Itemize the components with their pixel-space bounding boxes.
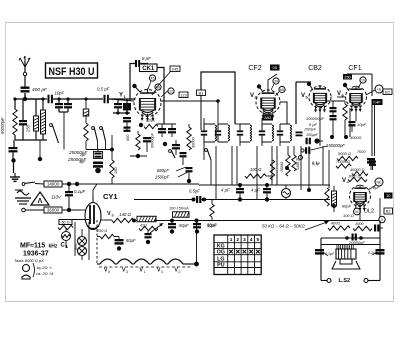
capacitor tone xyxy=(374,225,383,232)
resistor boxed x86 xyxy=(83,97,89,123)
resistor tone a xyxy=(328,222,350,231)
tank CF2 secondary xyxy=(259,118,274,142)
resistor tone b xyxy=(353,222,372,231)
junction V5 grid xyxy=(307,82,313,90)
svg-text:30000: 30000 xyxy=(192,137,196,148)
dial lamp 2 (crossed circle) xyxy=(78,247,87,261)
svg-text:NSF H30 U: NSF H30 U xyxy=(49,66,95,78)
junction y220 x172 xyxy=(170,219,197,223)
resistor left col 3 (box) xyxy=(34,99,39,140)
resistor 600ohm mid xyxy=(126,131,140,150)
label CF2 xyxy=(248,65,261,72)
switch pair mid xyxy=(92,127,106,141)
svg-text:35000: 35000 xyxy=(47,208,60,213)
svg-text:8 pF: 8 pF xyxy=(309,122,318,127)
label 4000 ohm xyxy=(350,136,361,140)
svg-text:100-150mA: 100-150mA xyxy=(169,207,189,211)
output transformer (speaker) xyxy=(336,249,356,259)
wire x272 down xyxy=(271,146,273,185)
capacitor 50uF heater xyxy=(115,237,136,251)
svg-text:8μF: 8μF xyxy=(373,186,380,190)
svg-text:CF2: CF2 xyxy=(248,65,261,72)
wire CF1 right rail xyxy=(347,74,372,156)
resistor 35000 (boxed) xyxy=(26,207,63,213)
svg-text:0,1μF: 0,1μF xyxy=(325,252,335,256)
svg-text:V: V xyxy=(301,93,305,99)
svg-text:V: V xyxy=(337,91,341,97)
label 4uF left xyxy=(79,160,86,164)
svg-text:50μF: 50μF xyxy=(207,223,217,228)
svg-text:14000: 14000 xyxy=(47,182,60,187)
label box B+ left xyxy=(197,90,206,96)
label V5 xyxy=(301,93,309,100)
capacitor cluster a xyxy=(172,140,180,155)
resistor CB2 couple (vertical) xyxy=(343,101,347,137)
speaker cone xyxy=(332,261,360,269)
svg-text:45: 45 xyxy=(151,77,155,81)
label DL2 xyxy=(364,209,374,215)
wire CB2 anode loop xyxy=(296,82,311,124)
wire x216 down xyxy=(215,146,217,199)
label 8uF V4 xyxy=(373,186,380,190)
label note line 1 xyxy=(14,258,44,263)
svg-text:V: V xyxy=(342,178,346,184)
svg-text:45Ω: 45Ω xyxy=(114,167,118,174)
wire lamps join xyxy=(75,255,82,257)
svg-text:400 pF: 400 pF xyxy=(32,87,48,93)
svg-text:CK1: CK1 xyxy=(142,66,155,72)
svg-text:DL2: DL2 xyxy=(364,209,374,215)
svg-text:M: M xyxy=(356,210,359,214)
svg-text:1000: 1000 xyxy=(355,222,364,226)
label box E4F xyxy=(372,99,383,105)
svg-text:1: 1 xyxy=(144,270,146,274)
wire speaker top bars xyxy=(321,238,380,245)
dial lamp 1 (crossed circle) xyxy=(78,229,87,246)
wire V5 right xyxy=(320,97,331,115)
svg-text:50μF: 50μF xyxy=(126,238,136,243)
label 0.5 uF xyxy=(97,87,110,92)
wire x277 down xyxy=(276,146,278,185)
capacitor 10pF out xyxy=(349,121,367,132)
wire V2 right xyxy=(280,102,287,124)
tube V5 xyxy=(309,85,331,113)
resistor 14000 (boxed) xyxy=(35,181,62,187)
label heater V4 xyxy=(157,268,163,275)
capacitor 4uF a xyxy=(236,183,244,202)
wire bar y149.5 xyxy=(86,149,112,151)
wire bus y220 to right xyxy=(154,220,380,222)
mains symbol xyxy=(15,190,31,204)
dashed shield CY1 xyxy=(96,220,98,263)
label 0.1u right spk xyxy=(368,251,378,255)
wire x237 down xyxy=(236,146,238,185)
wire bus y185 right xyxy=(199,184,330,186)
resistor boxed x334 xyxy=(332,186,337,212)
capacitor input tuning 1 xyxy=(114,99,122,113)
svg-text:88μF: 88μF xyxy=(342,204,352,209)
capacitor under wiper xyxy=(145,231,152,244)
resistor zigzag x327 xyxy=(325,188,329,212)
svg-text:1500pF: 1500pF xyxy=(155,175,170,180)
pin label V2 b (circled) xyxy=(275,86,285,96)
svg-text:10pF: 10pF xyxy=(55,91,65,96)
wire CK1 label to right rail xyxy=(157,68,164,125)
svg-text:20000: 20000 xyxy=(280,162,284,173)
svg-text:7000: 7000 xyxy=(357,150,366,154)
wire V2 anode loop xyxy=(201,72,235,124)
capacitor right x371 xyxy=(367,158,375,170)
svg-text:CB2: CB2 xyxy=(308,65,322,72)
series capacitor in y199.5 bus xyxy=(192,196,331,203)
capacitor left col 2 xyxy=(19,99,27,140)
wire bus segment A xyxy=(53,98,103,100)
svg-text:5000 Ω: 5000 Ω xyxy=(338,151,351,156)
capacitor on right rail xyxy=(369,161,376,171)
junction x165 xyxy=(163,142,167,146)
svg-text:OG: OG xyxy=(217,250,225,256)
label 110V xyxy=(51,195,62,200)
junction left 2 xyxy=(38,140,42,161)
svg-text:40000 Ω: 40000 Ω xyxy=(350,168,365,172)
svg-text:4: 4 xyxy=(161,270,163,274)
wire V6 left lead xyxy=(337,96,346,98)
wire power col frame xyxy=(66,248,82,252)
svg-text:123: 123 xyxy=(180,92,187,97)
pilot lamp (circled sine) xyxy=(282,185,291,200)
svg-text:1400: 1400 xyxy=(296,162,300,170)
svg-text:140 Ω: 140 Ω xyxy=(119,212,132,217)
pin label M (circled) xyxy=(354,208,361,215)
junction below CF1 b xyxy=(344,135,348,139)
pin label V6 top (circled) xyxy=(358,77,366,88)
wire x323 down xyxy=(322,146,324,185)
label 250 (rotated) xyxy=(26,124,31,133)
junction antenna bus xyxy=(23,97,27,101)
wire x204 down xyxy=(203,150,205,160)
label heater V2 xyxy=(175,268,181,275)
capacitor CB2 couple upper xyxy=(330,107,337,115)
label 1500pF xyxy=(155,172,188,180)
svg-text:MF≈115: MF≈115 xyxy=(20,243,45,250)
svg-text:400Ω: 400Ω xyxy=(331,222,340,226)
capacitor input tuning 2 xyxy=(123,99,131,113)
wire x301 down xyxy=(300,146,302,190)
capacitor speaker right 0.1 xyxy=(376,249,385,255)
svg-text:10: 10 xyxy=(361,79,365,83)
svg-text:8 pF: 8 pF xyxy=(142,56,151,61)
svg-text:Taats 8000 Ω pX: Taats 8000 Ω pX xyxy=(14,258,44,263)
capacitor pair under bus 1 xyxy=(55,97,63,112)
junction below CF1 a xyxy=(330,135,334,139)
svg-text:LG: LG xyxy=(217,256,224,262)
junction x287 y168 xyxy=(285,166,289,170)
svg-text:20000pF: 20000pF xyxy=(348,240,365,245)
svg-text:PU: PU xyxy=(217,263,225,269)
capacitor x189 low xyxy=(186,167,193,180)
wire bus y199.5 xyxy=(134,199,192,201)
svg-text:PU: PU xyxy=(296,158,301,162)
svg-text:NE: NE xyxy=(377,181,383,185)
wire bus y217 long xyxy=(110,217,136,219)
label V2 xyxy=(250,93,258,100)
wire heater end up xyxy=(196,220,198,264)
wire x218 top xyxy=(170,99,220,103)
svg-text:70000Ω: 70000Ω xyxy=(336,159,350,164)
label 0.1uF mains xyxy=(74,189,86,194)
label 30000 rot xyxy=(192,137,196,148)
label C1 xyxy=(61,243,69,250)
svg-text:0,1μ: 0,1μ xyxy=(312,160,321,165)
svg-text:B2: B2 xyxy=(385,89,391,94)
resistor vertical x212 xyxy=(210,200,214,221)
label 100000pF xyxy=(306,116,325,121)
wire CB2 couple top xyxy=(327,101,345,107)
junction V6 grid xyxy=(343,83,349,91)
resistor x272 low xyxy=(270,160,274,180)
svg-text:68: 68 xyxy=(280,88,284,92)
pin label NE (circled) xyxy=(368,178,383,190)
label 0.1u right xyxy=(312,160,321,165)
label 4uF b xyxy=(251,188,260,193)
wire speaker rail right xyxy=(379,221,381,281)
wire V5 cathode down xyxy=(319,110,321,146)
svg-text:250: 250 xyxy=(26,124,31,133)
speaker magnet xyxy=(340,259,352,264)
person icon xyxy=(22,263,35,279)
svg-text:150000pF: 150000pF xyxy=(326,143,345,148)
svg-text:250 Ω: 250 Ω xyxy=(96,229,107,233)
label 880pF xyxy=(157,167,186,173)
resistor boxed y220 xyxy=(173,212,190,218)
ground (mains left) xyxy=(10,173,20,181)
svg-text:+E: +E xyxy=(377,88,382,92)
svg-text:800: 800 xyxy=(74,243,78,250)
label box CF2 right xyxy=(270,65,280,71)
label box CF1 left xyxy=(343,74,352,80)
svg-text:30: 30 xyxy=(274,80,278,84)
resistor 40 ohm b xyxy=(139,224,158,231)
svg-text:60 Ω: 60 Ω xyxy=(61,221,69,225)
wire tuning caps join xyxy=(113,111,130,114)
junction left end y220 xyxy=(133,219,135,221)
wire V4 right rail down xyxy=(379,198,381,221)
resistor 5000 ohm xyxy=(337,151,358,161)
capacitor 20000pF speaker xyxy=(348,234,365,245)
switch mains xyxy=(22,182,35,185)
band switch table xyxy=(214,235,261,275)
wire CY1 top xyxy=(80,184,97,210)
label box A52 under V2 xyxy=(263,115,274,121)
svg-text:4000Ω: 4000Ω xyxy=(350,136,361,140)
resistor 140 ohm xyxy=(101,218,134,222)
svg-text:5: 5 xyxy=(257,237,260,243)
junction mid x138 xyxy=(130,154,147,158)
capacitor 400pF (antenna series) xyxy=(21,87,30,93)
wire antenna to bus xyxy=(25,93,47,99)
svg-text:5: 5 xyxy=(108,270,110,274)
capacitor x218 tank xyxy=(215,101,230,142)
label CF1 xyxy=(348,65,361,72)
label box right low xyxy=(384,208,393,214)
svg-text:10: 10 xyxy=(386,193,391,198)
junction x189 xyxy=(187,179,191,183)
junction y220 x196 xyxy=(195,219,199,223)
svg-text:05: 05 xyxy=(273,65,278,70)
output transformer winding xyxy=(337,245,353,249)
wire feedback left xyxy=(130,64,135,102)
svg-text:Y: Y xyxy=(119,93,123,99)
wire x329 rail xyxy=(328,150,330,188)
pin label tone (circled) xyxy=(379,216,385,222)
wire speaker rail left xyxy=(320,238,322,281)
svg-text:880pF: 880pF xyxy=(157,168,169,173)
tube V6 xyxy=(346,86,367,113)
label 150000pF xyxy=(326,143,345,148)
label 1500pF pu xyxy=(304,128,317,132)
label 1936-37 xyxy=(23,251,49,258)
resistor 4mA under CK1 xyxy=(139,118,158,129)
svg-text:by 2Ω ∿: by 2Ω ∿ xyxy=(37,265,53,270)
svg-text:1000 Ω: 1000 Ω xyxy=(348,175,361,179)
capacitor 0.5pF (series) xyxy=(104,95,109,104)
svg-text:Λ: Λ xyxy=(38,198,43,205)
junction heater end xyxy=(194,262,199,267)
junction CK1 grid xyxy=(132,84,140,92)
svg-text:CY1: CY1 xyxy=(103,192,118,201)
svg-text:V: V xyxy=(107,211,111,217)
junction mid x98 (big) xyxy=(95,168,101,174)
label 400pF xyxy=(32,87,48,93)
resistor boxed in heater bus xyxy=(137,216,157,222)
label 100uF pu xyxy=(306,133,319,137)
svg-text:250: 250 xyxy=(344,75,350,79)
svg-text:V: V xyxy=(250,93,254,99)
label 50K-64-50K xyxy=(262,224,305,229)
capacitor CK1 out 2 xyxy=(168,124,176,137)
wire power rail x89 xyxy=(59,220,89,261)
label 50uF right xyxy=(207,223,217,228)
svg-text:100 Ω: 100 Ω xyxy=(250,167,262,172)
wire CK1 right bus xyxy=(161,100,170,102)
label Vb CY1 xyxy=(107,211,115,218)
wire bus y220 long xyxy=(134,220,160,223)
warning triangle A xyxy=(31,192,49,205)
pin label 12 (circled) xyxy=(161,88,174,97)
resistor 250 ohm heater xyxy=(96,229,114,239)
label heater V5 xyxy=(104,268,110,275)
label 50uF low xyxy=(207,223,217,228)
switch wiper arrow xyxy=(150,223,164,233)
wire x75 col xyxy=(74,222,76,256)
label note line 3 xyxy=(36,271,54,276)
tube V4 xyxy=(350,185,371,212)
label box 10 dark xyxy=(384,193,393,199)
capacitor 50uF mid xyxy=(168,220,189,234)
capacitor 0.1uF mains xyxy=(65,184,73,210)
svg-text:110V: 110V xyxy=(51,195,62,200)
speaker terminal left xyxy=(321,279,331,283)
wire x257 down xyxy=(256,146,258,199)
svg-text:2: 2 xyxy=(179,270,181,274)
label 7000 xyxy=(357,150,366,154)
tube CK1 xyxy=(134,89,161,122)
capacitor 4uF b xyxy=(263,183,271,202)
boxed resistor in y217 bus xyxy=(154,226,160,228)
svg-text:4: 4 xyxy=(250,237,253,243)
capacitor speaker left 0.1 xyxy=(315,249,324,258)
pointer arrow B+ xyxy=(305,221,329,230)
wire caps pair join xyxy=(59,112,68,150)
resistor 1400 (vertical right) xyxy=(292,146,300,171)
label heater V1 xyxy=(140,268,146,275)
tank CK1 output xyxy=(201,118,217,150)
switch mid-left xyxy=(50,124,59,143)
capacitor AF coupling xyxy=(306,138,324,145)
junction speaker taps xyxy=(345,236,363,240)
svg-text:0,1μF: 0,1μF xyxy=(74,189,86,194)
svg-text:L.S2: L.S2 xyxy=(339,278,351,284)
heater chain inductors xyxy=(97,259,197,264)
svg-text:60000pF: 60000pF xyxy=(151,132,155,148)
tube V2 xyxy=(256,89,280,119)
tank CF2 primary xyxy=(235,124,252,142)
svg-text:kHz: kHz xyxy=(49,244,58,250)
junction left 1 xyxy=(11,158,15,162)
wire heater left xyxy=(97,220,100,240)
label LS2 xyxy=(339,278,351,284)
svg-text:42Ω: 42Ω xyxy=(140,224,147,228)
wire bus into CK1 xyxy=(109,99,134,101)
svg-text:4 μF: 4 μF xyxy=(251,188,260,193)
svg-text:1936-37: 1936-37 xyxy=(23,251,49,258)
svg-text:50μF: 50μF xyxy=(179,223,189,228)
junction x69 bottom xyxy=(62,208,80,212)
label 8pF xyxy=(142,56,151,61)
label 800 rot xyxy=(74,243,78,250)
wire CF1 right rail 2 xyxy=(374,102,376,156)
svg-text:3: 3 xyxy=(243,237,246,243)
label note line 2 xyxy=(37,265,53,270)
svg-text:B1: B1 xyxy=(199,90,205,95)
svg-text:0: 0 xyxy=(381,218,383,222)
resistor 60ohm (boxed) xyxy=(59,220,72,225)
label 140 ohm xyxy=(119,212,132,217)
svg-text:1500pF: 1500pF xyxy=(304,128,317,132)
title box NSF H30 U xyxy=(46,63,98,78)
junction left low xyxy=(12,161,14,163)
wire left col top xyxy=(13,97,43,100)
label box right top xyxy=(383,89,392,95)
resistor left col 4 (hatched) xyxy=(41,97,46,140)
svg-text:1: 1 xyxy=(230,237,233,243)
svg-text:3: 3 xyxy=(126,270,128,274)
svg-text:0,5 pF: 0,5 pF xyxy=(97,87,110,92)
wire feedback right xyxy=(141,63,149,65)
svg-text:0,5μF: 0,5μF xyxy=(189,189,200,194)
label 4uF a xyxy=(221,188,230,193)
junction x134 y220 xyxy=(132,219,136,223)
capacitor 60000pF lower xyxy=(93,162,103,168)
wire V6 left lead down xyxy=(349,108,351,137)
junction x69 top xyxy=(62,182,79,186)
terminal PU (circled) xyxy=(296,156,303,163)
label 8uF xyxy=(309,122,318,127)
svg-text:2: 2 xyxy=(236,237,239,243)
node Y1 xyxy=(119,93,127,100)
capacitor CB2 couple lower xyxy=(330,115,337,137)
svg-text:50 KΩ – 64 Ω – 50KΩ: 50 KΩ – 64 Ω – 50KΩ xyxy=(262,224,305,229)
